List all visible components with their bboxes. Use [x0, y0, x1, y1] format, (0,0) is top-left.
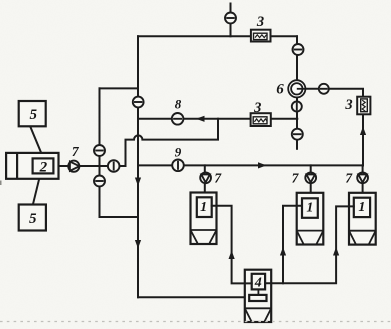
arrow down on trunk lower: [135, 240, 141, 249]
unit 2 outer housing: [6, 153, 58, 179]
valve circle top right column: [293, 44, 304, 55]
svg-text:2: 2: [39, 160, 48, 176]
wire diagonal box5 top to box2: [31, 127, 44, 158]
wire bottom long feed to unit 4: [138, 296, 249, 298]
arrow left on line 8: [196, 116, 205, 122]
wire left loop bottom connector: [100, 216, 139, 218]
svg-text:9: 9: [175, 145, 182, 160]
wire pump stub to tank 2: [310, 165, 312, 198]
pump 7 first: [68, 161, 79, 172]
arrow up on tank 2 feed: [280, 247, 286, 256]
wire pump stub to tank 3: [362, 165, 364, 197]
arrow down on trunk upper: [135, 178, 141, 187]
wire unit4 right distribution to tank 3: [265, 206, 354, 283]
pump 7 third: [305, 172, 316, 183]
svg-text:3: 3: [253, 100, 261, 116]
pump 7 fourth: [357, 172, 368, 183]
box 5 top: [19, 101, 46, 126]
tank 2: [297, 193, 324, 245]
svg-text:5: 5: [29, 107, 37, 123]
wire left loop vertical: [99, 88, 101, 217]
valve circle left loop upper: [94, 145, 105, 156]
unit 4 vessel: [245, 270, 271, 322]
wire branch up to tank 2: [283, 206, 302, 284]
wire pump stub to tank 1: [204, 165, 206, 197]
tank 1: [191, 193, 217, 245]
scan speck left margin: [0, 181, 2, 186]
wire main line left segment: [59, 165, 126, 167]
valve circle below junction on pump6 column: [292, 129, 303, 140]
svg-text:1: 1: [358, 200, 365, 215]
arrow up on tank 3 feed: [333, 247, 339, 256]
wire diagonal box2 to box5 bottom: [33, 173, 41, 204]
svg-text:5: 5: [29, 211, 37, 227]
arrow up to heater 3 right: [360, 127, 366, 136]
arrow right on main line: [258, 162, 267, 168]
thermometer circle on main line left: [108, 160, 120, 172]
pump 7 second: [200, 172, 211, 183]
scan artifact dashed base line: [0, 321, 391, 323]
heater 3 top: [251, 30, 271, 42]
arrow up on tank 1 feed: [229, 251, 235, 260]
tank 3: [349, 193, 376, 245]
svg-text:1: 1: [200, 200, 207, 215]
heater 3 right: [357, 97, 370, 115]
wire left loop top connector: [100, 87, 139, 89]
box 2: [33, 158, 54, 173]
valve circle 8: [172, 113, 184, 125]
wire sensor stub above top header: [230, 4, 232, 37]
svg-text:4: 4: [254, 276, 262, 291]
valve circle on trunk: [133, 97, 144, 108]
svg-text:1: 1: [306, 201, 313, 216]
box 5 bottom: [19, 205, 46, 231]
svg-text:3: 3: [256, 14, 264, 30]
valve circle on top stub: [225, 13, 236, 24]
wire line 8: [138, 118, 297, 120]
wire main line right segment: [138, 164, 363, 166]
valve circle right of pump 6: [319, 84, 329, 94]
wire pump6 row to right column: [297, 88, 363, 90]
wire top header: [138, 35, 297, 37]
pump 6: [288, 80, 305, 97]
thermometer circle 9: [172, 160, 184, 172]
heater 3 middle: [251, 113, 271, 126]
wire bypass with hop over trunk: [126, 119, 219, 166]
wire pump6 column: [296, 36, 298, 149]
wire right column down to main line: [362, 89, 364, 166]
svg-text:6: 6: [276, 82, 284, 98]
wire main vertical trunk: [137, 36, 139, 297]
wire tank 1 side link: [212, 206, 252, 284]
valve circle left loop lower: [94, 176, 105, 187]
thermometer circle below pump 6: [292, 102, 302, 112]
svg-text:8: 8: [175, 97, 182, 112]
svg-text:3: 3: [344, 97, 352, 113]
